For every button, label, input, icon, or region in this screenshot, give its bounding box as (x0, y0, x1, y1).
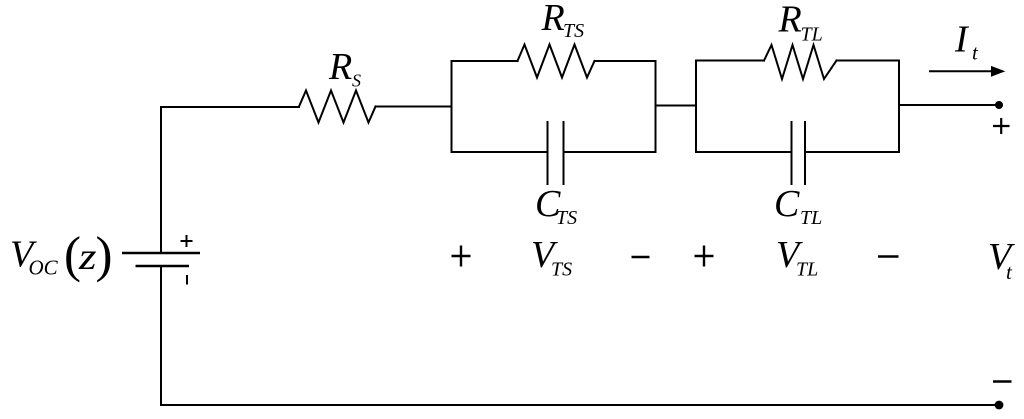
svg-text:z: z (78, 236, 97, 278)
label R_TL (778, 0, 823, 46)
positive terminal plus sign (993, 118, 1010, 134)
box1 top edge right segment (595, 60, 656, 62)
svg-text:TS: TS (551, 259, 572, 281)
resistor R_TL zigzag (764, 45, 837, 79)
svg-text:I: I (954, 19, 970, 61)
svg-text:S: S (352, 71, 361, 91)
box2 top edge right segment (837, 60, 900, 62)
battery plus sign (181, 235, 193, 247)
label R_S (328, 46, 361, 91)
wire box1 to box2 (656, 105, 697, 107)
label V_OC(z) (10, 228, 112, 284)
capacitor C_TS left plate (547, 122, 549, 184)
svg-text:TS: TS (563, 20, 584, 42)
box2 top edge left segment (696, 60, 764, 62)
negative terminal minus sign (993, 380, 1012, 383)
minus sign right of V_TS (632, 256, 650, 259)
positive terminal dot (995, 101, 1003, 109)
wire bottom rail (161, 404, 999, 406)
box2 left edge (695, 61, 697, 153)
wire left vertical upper (battery + to top rail) (160, 107, 162, 253)
label R_TS (541, 0, 585, 42)
svg-text:R: R (778, 0, 802, 41)
svg-text:TL: TL (800, 207, 822, 229)
capacitor C_TL left plate (791, 122, 793, 184)
svg-text:t: t (1006, 260, 1013, 284)
label V_TS (531, 234, 572, 281)
svg-text:t: t (972, 41, 979, 65)
svg-text:): ) (96, 228, 113, 284)
battery V_OC long plate (122, 252, 200, 255)
svg-text:TS: TS (556, 207, 577, 229)
svg-text:TL: TL (801, 24, 823, 46)
label I_t (954, 19, 979, 65)
capacitor C_TS right plate (563, 122, 565, 184)
label V_t (988, 236, 1015, 284)
svg-text:TL: TL (796, 259, 818, 281)
svg-text:OC: OC (29, 256, 59, 280)
box2 bottom edge right segment (805, 151, 899, 153)
battery minus tick (186, 275, 188, 285)
wire left vertical lower (battery - to bottom rail) (160, 266, 162, 405)
resistor R_TS zigzag (518, 45, 595, 78)
plus sign left of V_TS (452, 246, 471, 267)
box2 right edge (898, 61, 900, 153)
box1 bottom edge left segment (452, 151, 548, 153)
current arrow I_t head (992, 67, 1005, 76)
wire RS to box1 (376, 106, 452, 108)
minus sign right of V_TL (878, 255, 899, 258)
negative terminal dot (995, 401, 1004, 410)
current arrow I_t shaft (930, 70, 995, 72)
box1 top edge left segment (452, 60, 518, 62)
battery V_OC short plate (136, 265, 190, 268)
wire top rail to resistor RS (161, 106, 299, 108)
box2 bottom edge left segment (696, 151, 792, 153)
label V_TL (776, 234, 818, 281)
svg-text:R: R (328, 46, 352, 88)
capacitor C_TL right plate (804, 122, 806, 184)
resistor R_S zigzag (299, 91, 376, 123)
plus sign left of V_TL (695, 246, 714, 267)
svg-text:C: C (774, 183, 800, 225)
box1 right edge (655, 61, 657, 152)
label C_TL (774, 183, 822, 229)
box1 bottom edge right segment (564, 151, 656, 153)
box1 left edge (451, 61, 453, 152)
label C_TS (535, 183, 577, 229)
svg-text:R: R (541, 0, 565, 39)
wire box2 to positive terminal (899, 104, 999, 106)
